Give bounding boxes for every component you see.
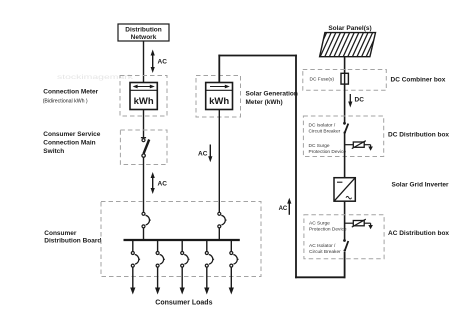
wire main switch to distribution board bbox=[143, 157, 145, 212]
DC isolator switch S2 bbox=[343, 122, 348, 134]
AC isolator label bbox=[309, 243, 341, 255]
wire panel to combiner bbox=[344, 57, 346, 74]
DC surge protection label bbox=[309, 143, 347, 155]
DC isolator label bbox=[309, 123, 341, 135]
DC combiner dashed box bbox=[303, 70, 387, 91]
wire grid to connection meter bbox=[143, 41, 145, 83]
distribution network box bbox=[118, 24, 169, 41]
consumer distribution board label bbox=[44, 230, 101, 245]
DC down arrow bbox=[348, 94, 364, 108]
wire combiner to DC distribution bbox=[344, 84, 346, 123]
AC bidirectional arrow top bbox=[151, 50, 168, 74]
fuse F1 bbox=[341, 73, 348, 84]
main switch S1 bbox=[141, 138, 149, 158]
wire top horizontal to right riser bbox=[218, 55, 297, 57]
wire AC isolator down to return bbox=[344, 252, 346, 278]
wire meter to main switch bbox=[143, 110, 145, 138]
svg-text:AC: AC bbox=[198, 151, 208, 158]
svg-text:Solar Panel(s): Solar Panel(s) bbox=[328, 25, 371, 32]
svg-text:AC: AC bbox=[279, 206, 288, 212]
AC SPD varistor bbox=[345, 219, 373, 229]
AC isolator switch S3 bbox=[343, 239, 348, 252]
svg-text:AC: AC bbox=[158, 59, 168, 66]
DC SPD varistor bbox=[345, 141, 373, 151]
main switch dashed box bbox=[120, 130, 167, 165]
solar grid inverter U1 bbox=[334, 178, 355, 202]
wire meter2 up bbox=[218, 55, 220, 83]
wire DC distribution to inverter bbox=[344, 133, 346, 178]
svg-text:Meter (kWh): Meter (kWh) bbox=[246, 99, 283, 106]
svg-text:Switch: Switch bbox=[43, 148, 64, 155]
svg-text:Consumer Loads: Consumer Loads bbox=[155, 300, 212, 307]
solar generation meter dashed box bbox=[196, 76, 241, 118]
svg-text:Distribution: Distribution bbox=[125, 27, 161, 34]
svg-text:Solar Generation: Solar Generation bbox=[246, 91, 298, 98]
svg-text:Circuit Breaker: Circuit Breaker bbox=[309, 249, 341, 255]
consumer distribution board dashed box bbox=[101, 202, 261, 277]
svg-text:Circuit Breaker: Circuit Breaker bbox=[309, 129, 341, 135]
svg-text:Distribution Board: Distribution Board bbox=[44, 238, 101, 245]
connection meter dashed box bbox=[120, 76, 167, 117]
svg-text:Network: Network bbox=[131, 34, 157, 41]
svg-text:DC Combiner box: DC Combiner box bbox=[391, 77, 446, 84]
svg-text:AC Distribution box: AC Distribution box bbox=[388, 230, 449, 237]
wire inverter to AC distribution bbox=[344, 201, 346, 240]
AC up arrow at riser bbox=[279, 198, 292, 215]
svg-text:kWh: kWh bbox=[209, 96, 229, 107]
AC surge protection label bbox=[309, 221, 347, 233]
solar generation meter label bbox=[246, 91, 298, 107]
svg-text:DC: DC bbox=[355, 97, 365, 104]
solar panel PV bbox=[310, 31, 382, 58]
svg-text:DC Surge: DC Surge bbox=[309, 143, 330, 149]
svg-text:kWh: kWh bbox=[134, 96, 154, 107]
DC distribution dashed box bbox=[303, 116, 383, 157]
svg-text:Consumer Service: Consumer Service bbox=[43, 131, 100, 138]
svg-text:AC Surge: AC Surge bbox=[309, 221, 330, 227]
AC bidirectional arrow lower bbox=[151, 172, 168, 194]
svg-text:Connection Meter: Connection Meter bbox=[43, 89, 98, 96]
load branch 1 breaker bbox=[130, 240, 140, 295]
AC distribution dashed box bbox=[304, 215, 384, 259]
consumer service connection main switch label bbox=[43, 131, 100, 155]
svg-text:AC Isolator /: AC Isolator / bbox=[309, 243, 336, 249]
svg-text:(Bidirectional kWh ): (Bidirectional kWh ) bbox=[43, 99, 88, 105]
wire meter2 to distribution board bbox=[218, 110, 220, 213]
wire bottom return bbox=[295, 276, 345, 278]
load branch 4 breaker bbox=[204, 240, 214, 295]
svg-text:Connection Main: Connection Main bbox=[43, 140, 95, 147]
load branch 5 breaker bbox=[229, 240, 239, 295]
incoming breaker CB2 bbox=[218, 212, 227, 240]
connection meter kWh M1 bbox=[130, 83, 157, 110]
svg-text:DC Distribution box: DC Distribution box bbox=[388, 132, 449, 139]
load branch 3 breaker bbox=[180, 240, 190, 295]
svg-text:AC: AC bbox=[158, 181, 168, 188]
solar generation meter kWh M2 bbox=[206, 83, 233, 110]
svg-text:Protection Device: Protection Device bbox=[309, 149, 347, 155]
svg-text:DC Fuse(s): DC Fuse(s) bbox=[310, 77, 335, 83]
busbar bbox=[124, 239, 240, 241]
svg-text:Consumer: Consumer bbox=[44, 230, 77, 237]
wire right riser bbox=[295, 55, 297, 279]
incoming breaker CB1 bbox=[142, 212, 151, 240]
load branch 2 breaker bbox=[155, 240, 165, 295]
svg-text:DC Isolator /: DC Isolator / bbox=[309, 123, 336, 129]
AC down arrow middle chain bbox=[198, 145, 212, 163]
svg-text:Solar Grid Inverter: Solar Grid Inverter bbox=[392, 182, 450, 189]
connection meter label bbox=[43, 89, 99, 105]
svg-text:Protection Device: Protection Device bbox=[309, 227, 347, 233]
